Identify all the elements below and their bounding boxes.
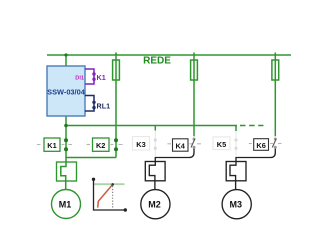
svg-text:REDE: REDE <box>143 56 171 67</box>
svg-text:K5: K5 <box>217 140 226 149</box>
svg-text:M3: M3 <box>230 200 243 210</box>
svg-text:K4: K4 <box>175 142 185 151</box>
svg-text:DI1: DI1 <box>75 76 84 82</box>
svg-text:K6: K6 <box>256 141 265 150</box>
svg-text:K2: K2 <box>96 141 105 150</box>
svg-text:K1: K1 <box>97 73 106 82</box>
svg-text:RL1: RL1 <box>97 101 111 110</box>
svg-text:M2: M2 <box>148 200 161 210</box>
svg-text:K1: K1 <box>47 141 56 150</box>
svg-text:M1: M1 <box>59 200 72 210</box>
svg-text:SSW-03/04: SSW-03/04 <box>47 88 86 97</box>
svg-text:K3: K3 <box>136 140 145 149</box>
